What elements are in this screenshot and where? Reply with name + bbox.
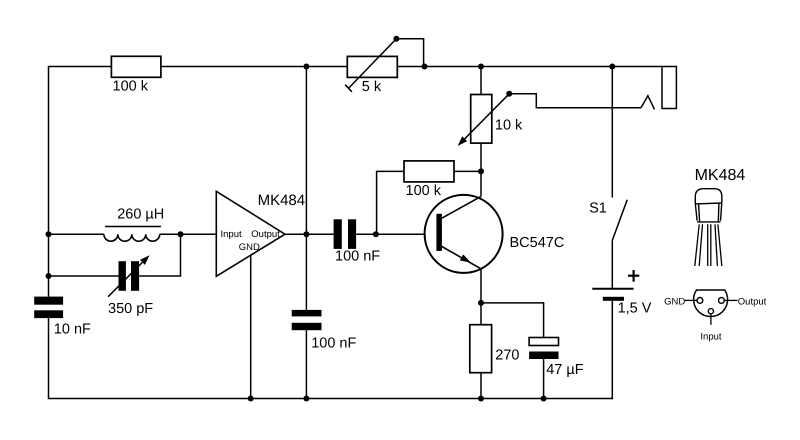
- wire output vertical upper: [305, 67, 307, 310]
- wire emitter vertical: [480, 269, 482, 303]
- wire emitter node to 47uF: [481, 303, 544, 338]
- wire R4 to base node: [377, 171, 481, 234]
- svg-text:350 pF: 350 pF: [108, 301, 153, 317]
- svg-text:100 nF: 100 nF: [335, 249, 380, 265]
- jack tip contact notch: [641, 96, 655, 110]
- variable capacitor 350pF plates: [119, 261, 126, 291]
- wire 10k branch / collector vertical: [480, 67, 482, 197]
- wire tuning cap left: [49, 275, 119, 277]
- node ground 47uF: [541, 396, 547, 402]
- wire bottom rail: [49, 398, 613, 400]
- svg-text:Output: Output: [251, 229, 280, 240]
- svg-text:100 nF: 100 nF: [311, 336, 356, 352]
- svg-text:10 k: 10 k: [495, 118, 523, 134]
- earphone jack socket: [662, 67, 676, 109]
- svg-text:BC547C: BC547C: [510, 235, 565, 251]
- pin Input lead: [710, 314, 712, 325]
- capacitor 47uF electrolytic negative plate: [529, 352, 558, 360]
- MK484 TO-92 legs: [695, 224, 722, 266]
- svg-text:100 k: 100 k: [113, 78, 149, 94]
- wire tuning cap right: [139, 234, 180, 276]
- node ground 270: [478, 396, 484, 402]
- svg-text:S1: S1: [589, 201, 607, 217]
- svg-text:MK484: MK484: [258, 192, 306, 209]
- svg-text:Output: Output: [738, 296, 767, 307]
- node ground gnd-pin: [248, 396, 254, 402]
- pin Output lead: [724, 299, 737, 301]
- node antenna left: [46, 231, 52, 237]
- wire switch to battery: [611, 240, 613, 288]
- wire left rail upper: [48, 66, 50, 297]
- svg-text:1,5 V: 1,5 V: [618, 300, 652, 316]
- wire coupling cap left: [306, 233, 333, 235]
- node top output junction: [303, 64, 309, 70]
- wire 47uF to ground rail: [543, 359, 545, 399]
- wire output vertical lower: [305, 330, 307, 398]
- switch S1 lever: [612, 200, 627, 241]
- svg-text:100 k: 100 k: [406, 183, 442, 199]
- svg-text:Input: Input: [221, 229, 242, 240]
- MK484 pinout bottom view outline: [694, 290, 728, 316]
- battery B1 positive plate: [592, 288, 633, 290]
- node antenna right: [178, 231, 184, 237]
- battery plus sign: [628, 270, 639, 282]
- pin Input circle: [708, 309, 713, 314]
- svg-text:260 µH: 260 µH: [117, 207, 164, 223]
- capacitor 47uF electrolytic positive plate: [529, 338, 558, 346]
- svg-text:47 µF: 47 µF: [546, 362, 584, 378]
- op-amp U1 MK484 amplifier triangle: [216, 191, 285, 276]
- wire MK484 gnd pin: [250, 255, 252, 398]
- wire MK484 output: [285, 233, 306, 235]
- wire 10k wiper to jack tip: [509, 94, 641, 108]
- node tuning cap left: [46, 273, 52, 279]
- wire switch top: [611, 67, 613, 198]
- preset resistor 5k: [347, 56, 397, 77]
- resistor R 100k base: [404, 161, 454, 182]
- variable capacitor 350pF arrow: [108, 262, 142, 296]
- capacitor 100nF decoupling plates: [292, 310, 322, 317]
- wire left rail lower: [48, 318, 50, 399]
- resistor R 100k top: [111, 56, 160, 77]
- capacitor 10nF plates: [34, 297, 63, 305]
- capacitor 100nF coupling plates: [334, 219, 342, 249]
- node ground decoupling: [303, 396, 309, 402]
- pin Output circle: [719, 298, 725, 304]
- svg-text:MK484: MK484: [695, 167, 746, 184]
- svg-text:Input: Input: [700, 332, 721, 343]
- node emitter junction: [478, 300, 484, 306]
- wire 5k wiper link: [396, 39, 423, 67]
- node 5k wiper top: [393, 36, 399, 42]
- battery B1 negative plate: [603, 297, 624, 301]
- node output junction: [303, 231, 309, 237]
- svg-text:GND: GND: [664, 296, 685, 307]
- inductor L 260uH ferrite rod core: [105, 226, 161, 228]
- wire battery negative leg: [611, 301, 613, 399]
- pin GND circle: [697, 298, 703, 304]
- node 10k top: [478, 64, 484, 70]
- node base junction: [373, 231, 379, 237]
- node 5k wiper join: [422, 64, 428, 70]
- inductor L 260uH windings: [104, 234, 160, 241]
- node collector junction: [478, 168, 484, 174]
- rheostat 10k: [471, 95, 492, 144]
- node switch top: [609, 64, 615, 70]
- pin GND lead: [685, 299, 697, 301]
- svg-text:5 k: 5 k: [362, 79, 382, 95]
- svg-text:GND: GND: [239, 242, 260, 253]
- wire coupling cap to base: [356, 233, 436, 235]
- wire antenna left: [49, 233, 104, 235]
- svg-text:10 nF: 10 nF: [54, 322, 91, 338]
- transistor Q1 BC547C: [425, 195, 503, 273]
- svg-text:270: 270: [495, 348, 519, 364]
- wire 270 leg: [480, 303, 482, 399]
- wire top rail: [49, 66, 663, 68]
- MK484 TO-92 package body: [695, 189, 722, 222]
- node 10k wiper: [506, 91, 512, 97]
- wire input to MK484: [160, 233, 217, 235]
- resistor R 270: [470, 325, 492, 373]
